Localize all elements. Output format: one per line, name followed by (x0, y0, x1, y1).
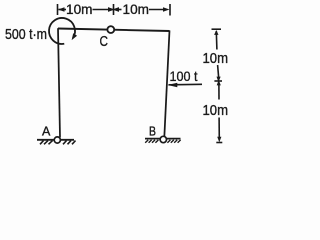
load arrow 100 t (169, 83, 203, 86)
svg-text:C: C (100, 33, 109, 50)
svg-text:10m: 10m (66, 1, 93, 17)
support A ground line (37, 139, 74, 141)
wire: left column (58, 28, 60, 137)
svg-text:500 t·m: 500 t·m (5, 27, 47, 43)
top dim left arrow (59, 9, 67, 11)
support B ground line (145, 138, 181, 140)
moment arc 500 t·m (49, 18, 75, 44)
svg-text:A: A (42, 125, 51, 139)
top dim right tick (169, 4, 171, 16)
support B pin circle (160, 136, 166, 142)
svg-text:B: B (149, 125, 156, 139)
top dimension line left tick (57, 4, 59, 15)
top dim segment 2 arrow+line (112, 7, 119, 12)
svg-text:10m: 10m (123, 1, 150, 17)
hinge C (107, 26, 114, 33)
right dimension line: top tick (212, 28, 222, 30)
right dim up arrow (214, 30, 218, 35)
svg-text:100 t: 100 t (170, 68, 198, 84)
moment arrowhead (72, 33, 77, 40)
svg-text:10m: 10m (203, 103, 229, 119)
right dim bottom tick (216, 142, 222, 144)
support A pin circle (54, 137, 60, 143)
svg-text:10m: 10m (203, 51, 229, 67)
right dim middle tick (214, 80, 222, 82)
top dim middle tick (113, 4, 115, 15)
support A hatches (44, 141, 48, 145)
wire: right column (164, 31, 169, 138)
right dim bottom segment (218, 118, 220, 140)
support B hatches (145, 140, 180, 143)
right dim middle segment with meeting arrows (218, 65, 219, 78)
wire: top beam (58, 29, 170, 32)
top dim segment 1 line (93, 9, 110, 11)
